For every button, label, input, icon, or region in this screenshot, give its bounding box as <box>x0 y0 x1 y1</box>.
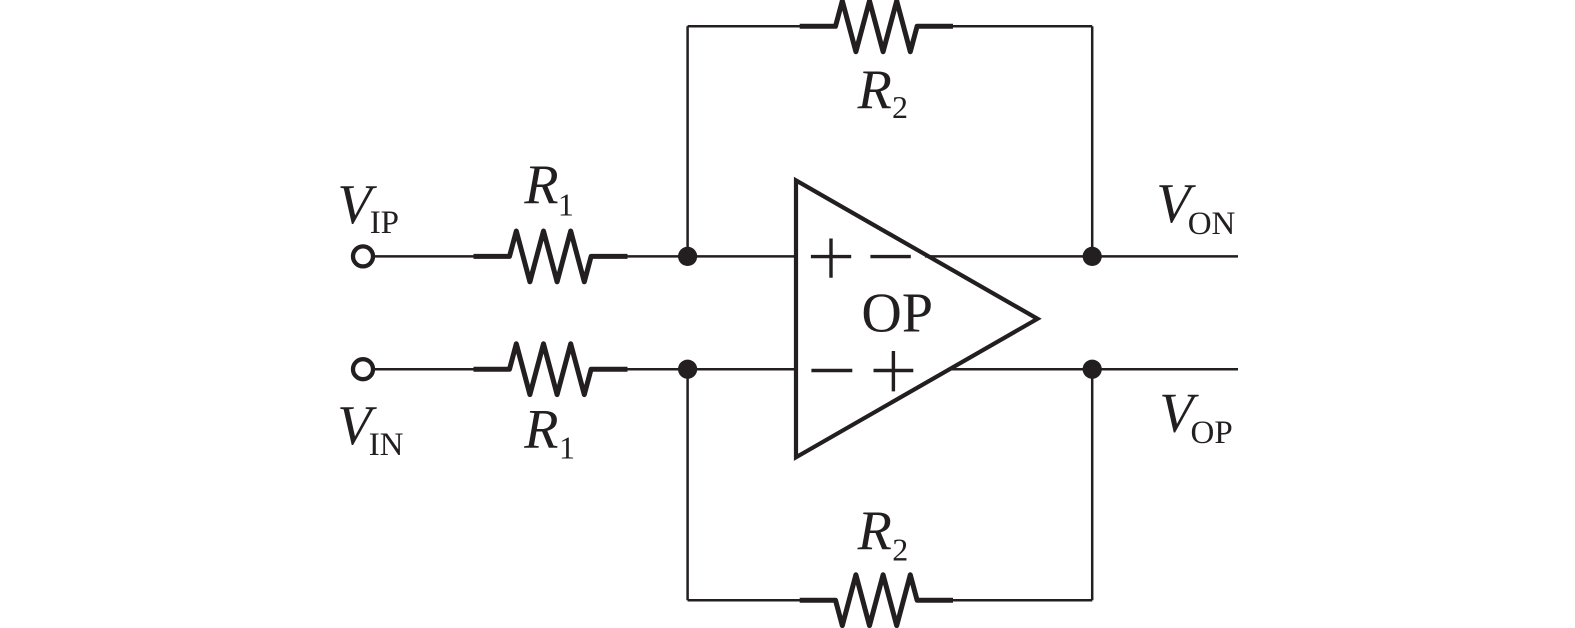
resistor R2 bottom <box>800 575 953 626</box>
opamp + input mark (top) <box>811 239 851 278</box>
svg-text:2: 2 <box>892 532 908 568</box>
svg-text:IN: IN <box>369 427 404 463</box>
opamp - input mark (bottom) <box>811 369 852 372</box>
svg-text:R: R <box>857 500 892 562</box>
wire VIP to R1 <box>375 255 478 258</box>
op-amp OP triangle <box>796 180 1038 457</box>
node B junction dot <box>678 360 697 379</box>
wire opamp top output to VON <box>925 255 1238 258</box>
wire R1 top to opamp input, through node A <box>628 255 797 258</box>
wire VIN to R1 bottom <box>375 368 478 371</box>
wire opamp bottom output to VOP <box>950 368 1238 371</box>
wire top rail left segment <box>688 25 802 28</box>
resistor R1 top <box>474 231 628 282</box>
opamp - output mark (top) <box>870 255 910 258</box>
svg-text:R: R <box>857 59 892 121</box>
resistor R1 bottom <box>474 344 628 395</box>
svg-text:R: R <box>523 399 558 461</box>
wire R1 bottom to opamp input, through node B <box>628 368 797 371</box>
wire node B down to bottom feedback rail <box>686 369 689 600</box>
svg-text:R: R <box>523 154 558 216</box>
svg-text:OP: OP <box>1191 415 1233 451</box>
wire bottom rail left segment <box>688 599 802 602</box>
resistor R2 top <box>800 1 953 52</box>
node C junction dot <box>1083 247 1102 266</box>
wire top rail right segment <box>953 25 1092 28</box>
svg-text:IP: IP <box>370 205 399 241</box>
opamp + output mark (bottom) <box>874 351 914 391</box>
svg-text:1: 1 <box>558 187 574 223</box>
node A junction dot <box>678 247 697 266</box>
svg-text:OP: OP <box>861 282 933 344</box>
terminal VIN <box>353 359 373 379</box>
svg-text:1: 1 <box>559 429 575 465</box>
terminal VIP <box>353 246 373 266</box>
wire bottom rail up to output node D <box>1091 369 1094 600</box>
wire node A up to top feedback rail <box>686 26 689 256</box>
svg-text:ON: ON <box>1188 206 1236 242</box>
wire bottom rail right segment <box>953 599 1092 602</box>
wire top rail down to output node C <box>1091 26 1094 256</box>
svg-text:2: 2 <box>892 89 908 125</box>
node D junction dot <box>1083 360 1102 379</box>
